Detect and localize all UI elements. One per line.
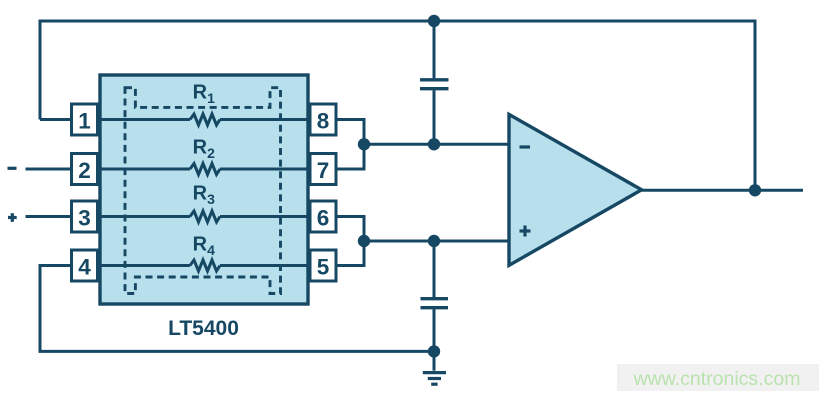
wire: non-inverting input stub (left of pin 3) — [26, 215, 72, 218]
resistor R3 — [190, 211, 220, 222]
wire: row 2 (pin2 to pin7) — [98, 168, 191, 171]
wire: row 2 right segment — [220, 168, 310, 171]
svg-text:2: 2 — [78, 158, 91, 183]
pin 8 — [310, 104, 336, 135]
pin 2 — [72, 154, 98, 185]
wire: pin8/pin7 join to inverting net — [336, 120, 509, 170]
svg-text:www.cntronics.com: www.cntronics.com — [633, 368, 801, 390]
junction: top cap / feedback — [428, 15, 440, 27]
resistor R1 — [190, 114, 220, 125]
capacitor C2 (bottom) — [421, 241, 449, 351]
svg-text:LT5400: LT5400 — [168, 317, 239, 340]
junction: C2 / ground / bottom feedback — [428, 345, 440, 357]
wire: row 3 (pin3 to pin6) — [98, 215, 191, 218]
pin 6 — [310, 201, 336, 232]
ground — [423, 351, 446, 384]
resistor R4 — [190, 260, 220, 271]
node + (plus input label) — [8, 213, 17, 222]
pin 3 — [72, 201, 98, 232]
svg-text:4: 4 — [78, 255, 91, 280]
svg-text:6: 6 — [317, 206, 330, 231]
wire: op-amp output — [642, 189, 803, 192]
pin 4 — [72, 250, 98, 281]
junction: non-inverting net / C2 — [428, 235, 440, 247]
wire: bottom feedback (pin 4 down, across bottom to ground node) — [40, 266, 434, 352]
wire: row 1 right segment — [220, 118, 310, 121]
wire: row 3 right segment — [220, 215, 310, 218]
wire: row 4 right segment — [220, 264, 310, 267]
svg-text:7: 7 — [317, 158, 330, 183]
pin 1 — [72, 104, 98, 135]
wire: top feedback (pin1 up, across top, down to output node) — [40, 21, 755, 190]
wire: pin6/pin5 join to non-inverting net — [336, 217, 509, 266]
IC U1 LT5400 package body — [100, 75, 308, 304]
watermark band — [617, 364, 819, 391]
node - (minus input label) — [8, 167, 17, 170]
wire: row 1 (pin1 to pin8) — [98, 118, 191, 121]
resistor R2 — [190, 164, 220, 175]
capacitor C1 (top) — [420, 21, 449, 144]
pin 7 — [310, 154, 336, 185]
pin 5 — [310, 250, 336, 281]
dashed internal outline of LT5400 — [125, 88, 281, 294]
svg-text:5: 5 — [317, 255, 330, 280]
svg-text:8: 8 — [317, 109, 330, 134]
wire: inverting input stub (left of pin 2) — [26, 168, 72, 171]
junction: pins 8-7 tie — [358, 138, 370, 150]
junction: inverting net / C1 — [428, 138, 440, 150]
svg-text:1: 1 — [78, 109, 91, 134]
wire: row 4 (pin4 to pin5) — [98, 264, 191, 267]
junction: output node — [749, 184, 761, 196]
op-amp U2 — [509, 114, 642, 265]
svg-text:3: 3 — [78, 206, 91, 231]
junction: pins 6-5 tie — [358, 235, 370, 247]
